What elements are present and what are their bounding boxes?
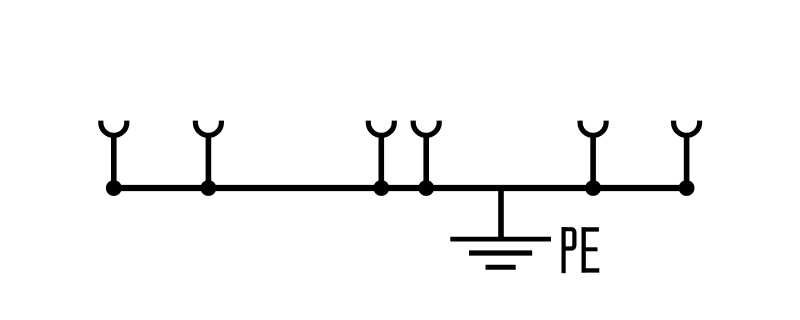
- junction node 2: [201, 180, 217, 196]
- junction node 1: [106, 180, 122, 196]
- terminal 4 stem wire: [423, 135, 429, 188]
- bus wire (PE rail): [114, 185, 687, 191]
- junction node 4: [418, 180, 434, 196]
- label PE letter E: [582, 227, 600, 272]
- junction node 6: [679, 180, 695, 196]
- terminal 1 stem wire: [111, 135, 117, 188]
- terminal clamp 5 arc: [580, 121, 606, 136]
- terminal clamp 2 arc: [195, 121, 221, 136]
- junction node 3: [373, 180, 389, 196]
- ground stem wire: [498, 188, 504, 239]
- junction node 5: [585, 180, 601, 196]
- terminal 3 stem wire: [378, 135, 384, 188]
- terminal 2 stem wire: [206, 135, 212, 188]
- ground bar 2: [469, 250, 532, 255]
- terminal clamp 1 arc: [101, 121, 127, 136]
- ground bar 3: [486, 265, 516, 270]
- terminal clamp 3 arc: [368, 121, 394, 136]
- terminal 5 stem wire: [590, 135, 596, 188]
- terminal clamp 4 arc: [413, 121, 439, 136]
- label PE letter P: [564, 227, 575, 273]
- ground bar 1: [450, 237, 551, 242]
- terminal clamp 6 arc: [674, 121, 700, 136]
- terminal 6 stem wire: [684, 135, 690, 188]
